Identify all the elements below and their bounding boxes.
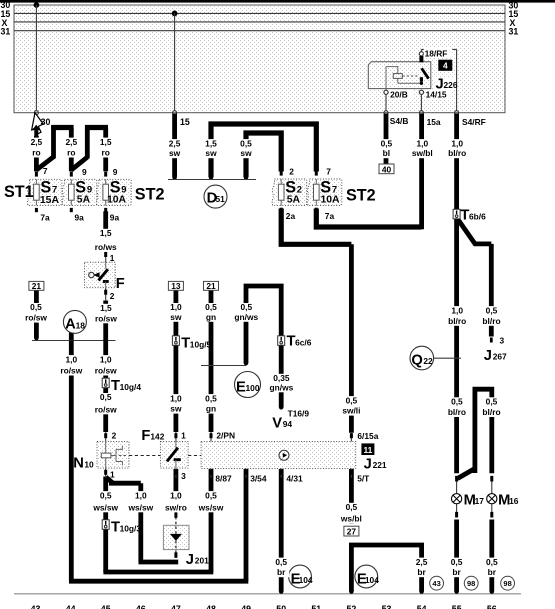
wire ground loop col52-col54 (br) [351, 545, 421, 591]
wire label 0,5 ws/sw (col48) [196, 490, 226, 512]
svg-text:18: 18 [76, 320, 86, 330]
bulb M17 [452, 476, 485, 518]
svg-text:0,5: 0,5 [100, 392, 112, 402]
svg-text:br: br [488, 567, 497, 577]
wire branch diagonal fuse2 to loop [71, 157, 87, 170]
wire M16 down (0,5 br) [489, 520, 494, 592]
svg-text:5A: 5A [77, 195, 91, 206]
left bus labels 30 15 X 31 [1, 0, 11, 36]
label F142 [141, 428, 164, 444]
relay contact node [420, 82, 423, 85]
wire label 0,5 bl/ro mid (col55) [443, 397, 470, 418]
label N10 [73, 456, 94, 472]
svg-text:104: 104 [365, 575, 379, 585]
J221 terminal 8/87 [210, 468, 233, 483]
wiper relay N10 box [97, 441, 129, 468]
svg-text:0,5: 0,5 [100, 490, 112, 500]
svg-text:98: 98 [503, 579, 511, 588]
svg-text:46: 46 [136, 604, 146, 609]
wire fuse S7 out 7a to 15a bar [316, 209, 421, 228]
svg-text:5A: 5A [287, 195, 301, 206]
svg-text:bl/ro: bl/ro [448, 407, 466, 417]
svg-text:14/15: 14/15 [426, 89, 447, 99]
node on bus 15 (col47 tap) [172, 11, 178, 17]
svg-text:A: A [65, 317, 76, 333]
N10 terminal 2 [104, 431, 116, 442]
svg-text:ro/sw: ro/sw [60, 366, 82, 376]
wire loop bar 1 [51, 125, 73, 130]
svg-text:9a: 9a [75, 213, 85, 223]
wire col49 below J221 3/54 [244, 469, 249, 581]
svg-text:T16/9: T16/9 [288, 408, 310, 418]
wire end cap col48 at D51 [209, 175, 214, 180]
svg-text:2,5: 2,5 [31, 137, 43, 147]
label V94 [272, 415, 292, 431]
svg-text:100: 100 [246, 383, 260, 393]
wire into relay switch (thick stub) [419, 56, 423, 62]
wire col52 down to J221 6/15a (0,5 sw/li) [349, 244, 354, 432]
svg-text:55: 55 [452, 604, 462, 609]
relay fixed contact [420, 77, 423, 82]
J267 terminal 3 [490, 336, 505, 346]
svg-text:11: 11 [363, 445, 372, 455]
ground bar C (col44-col49) [69, 579, 248, 584]
drop circle 15a [419, 111, 423, 115]
svg-text:1,0: 1,0 [170, 302, 182, 312]
svg-text:43: 43 [432, 579, 440, 588]
wire branch diagonal fuse1 to loop [36, 157, 53, 170]
wire col47 from ref13 to F142 (1,0 sw) [173, 290, 178, 432]
fuse S2 5A (ST2) [272, 171, 307, 212]
svg-text:104: 104 [299, 575, 313, 585]
switch F terminal 2 [104, 288, 115, 301]
svg-text:E: E [236, 379, 246, 395]
fuse S9 5A (ST1) [62, 172, 97, 213]
svg-text:2: 2 [289, 166, 294, 176]
wire label 0,5 sw/li (col52) [338, 395, 365, 415]
wire label 0,5 bl/ro (col56) [478, 305, 505, 326]
svg-text:56: 56 [487, 604, 497, 609]
diode unit J201 [163, 512, 189, 560]
bus line 31 [14, 30, 505, 32]
wire col44 down (1,0 ro/sw) to ground bar C [69, 341, 74, 582]
svg-text:sw: sw [205, 148, 217, 158]
dashed link F142 to J221 [188, 455, 201, 457]
J221 terminal 4/31 [280, 468, 303, 483]
svg-text:54: 54 [417, 604, 427, 609]
ground rail line (bottom) [14, 593, 521, 595]
wire end cap col50 at V94 [279, 405, 284, 410]
F142 terminal 1 [174, 431, 186, 442]
wire label 1,0 ro/sw (col44) [57, 354, 85, 375]
boxed ref 27 (col52) [344, 526, 359, 537]
drop circle S4/B [384, 111, 388, 115]
wire end cap col43 at junction [34, 336, 39, 341]
svg-text:2/PN: 2/PN [216, 431, 235, 441]
wire end cap col50 at rail [279, 589, 284, 594]
wire 20/B to S4/B drop [385, 94, 387, 110]
svg-text:201: 201 [195, 556, 209, 566]
terminal circle 14/15 [419, 90, 423, 94]
svg-text:F: F [141, 428, 150, 444]
svg-text:ro/sw: ro/sw [25, 313, 47, 323]
svg-text:0,5: 0,5 [275, 557, 287, 567]
svg-text:10g/3: 10g/3 [120, 523, 142, 533]
wire M17 down (0,5 br) [454, 520, 459, 592]
drop circle col47 (15) [173, 111, 177, 115]
J221 terminal 5/T [350, 468, 370, 483]
relay coil [393, 74, 402, 79]
column numbers 43-56 [31, 604, 497, 609]
svg-text:gn/ws: gn/ws [270, 382, 294, 392]
svg-text:br: br [452, 567, 461, 577]
svg-text:2,5: 2,5 [65, 137, 77, 147]
svg-text:2: 2 [110, 291, 115, 301]
svg-text:F: F [116, 276, 125, 292]
svg-text:0,5: 0,5 [205, 490, 217, 500]
bulb M16 [487, 476, 519, 518]
svg-text:1,5: 1,5 [205, 138, 217, 148]
wire bar to fuse S7 term 7 (1,5 sw) [211, 124, 316, 177]
wire loop riser 1 [51, 125, 56, 158]
svg-text:ro/ws: ro/ws [95, 242, 117, 252]
svg-text:43: 43 [31, 604, 41, 609]
svg-text:gn/ws: gn/ws [234, 312, 258, 322]
svg-text:6/15a: 6/15a [357, 431, 378, 441]
wire branch T6b/6 to col56 (J267 feed) [457, 218, 492, 244]
switch F142 box [160, 441, 188, 468]
wire col43 from ref21 (0,5 ro/sw) [34, 290, 39, 338]
bus-bar box (dotted) [14, 5, 505, 113]
wire loop riser 2 [85, 125, 90, 158]
junction line A18 net [32, 340, 116, 342]
wire end cap col52 at rail [349, 589, 354, 594]
junction line Q22 tap [434, 357, 461, 359]
svg-text:52: 52 [347, 604, 357, 609]
svg-text:44: 44 [66, 604, 76, 609]
svg-text:2: 2 [112, 431, 117, 441]
wire label 1,0 ro/sw (col45) [92, 354, 120, 375]
wire label 1,0 sw/ro (col47) [161, 490, 191, 512]
J221 terminal 3/54 [245, 468, 267, 483]
connector T6c/6 [278, 334, 312, 350]
svg-text:br: br [277, 567, 286, 577]
svg-text:3: 3 [181, 471, 186, 481]
node on bus 30 (col43 tap) [34, 2, 40, 8]
wire end cap col55 at rail [454, 589, 459, 594]
fuse terminal labels ST2 [286, 166, 335, 221]
label J221 [364, 456, 387, 472]
svg-text:7: 7 [52, 184, 57, 195]
svg-text:9: 9 [113, 167, 118, 177]
relay coil circuit (thin) [386, 67, 421, 91]
svg-text:2,5: 2,5 [416, 557, 428, 567]
svg-text:sw/ro: sw/ro [165, 502, 187, 512]
wire label 2,5 ro (col43) [25, 137, 47, 158]
svg-text:0,5: 0,5 [486, 397, 498, 407]
wire label 0,5 bl (S4/B) [375, 138, 397, 158]
svg-text:45: 45 [101, 604, 111, 609]
svg-text:31: 31 [1, 27, 11, 37]
svg-text:gn: gn [206, 312, 216, 322]
switch F terminal 1 [104, 251, 115, 263]
circled ref 98 (col56) [501, 576, 515, 590]
control unit J221 box [201, 441, 356, 468]
wire label 1,0 sw/bl (15a) [408, 138, 436, 158]
wire col47 inside box (thin drop from bus 15) [174, 13, 176, 110]
svg-text:20/B: 20/B [390, 89, 408, 99]
svg-text:1,0: 1,0 [451, 305, 463, 315]
svg-text:10g/5: 10g/5 [190, 339, 212, 349]
svg-text:5/T: 5/T [357, 474, 370, 484]
svg-text:1,0: 1,0 [170, 490, 182, 500]
bus line 15 [14, 12, 505, 14]
wire col47 below F142 (1,0 sw/ro) to J201 [173, 469, 178, 512]
wire label 0,5 gn low (col48) [199, 393, 223, 413]
svg-text:0,5: 0,5 [30, 302, 42, 312]
connector E100 [235, 372, 261, 398]
wire label 1,0 bl/ro (S4/RF) [444, 138, 471, 158]
connector T10g/5 [172, 336, 211, 352]
wire col48 from ref21 to J221 2/PN (0,5 gn) [209, 290, 214, 432]
wire end cap col56 at rail [490, 589, 495, 594]
wire label 0,5 gn/ws (col49) [231, 302, 261, 322]
svg-text:1,0: 1,0 [451, 138, 463, 148]
wire label 2,5 br (col54) [414, 557, 430, 577]
wire 15 feed col47 (2,5 sw) to D51 [172, 114, 177, 177]
svg-text:94: 94 [283, 419, 293, 429]
relay switch arm [422, 68, 429, 78]
svg-text:15a: 15a [427, 117, 441, 127]
svg-text:J: J [186, 552, 194, 568]
svg-text:10: 10 [84, 459, 94, 469]
wire end cap col47 at D51 [172, 175, 177, 180]
svg-text:ST2: ST2 [346, 187, 376, 205]
drop circle S4/RF [455, 111, 459, 115]
svg-text:7: 7 [43, 166, 48, 176]
svg-text:1,0: 1,0 [135, 490, 147, 500]
label 14/15 [425, 89, 451, 99]
svg-text:bl/ro: bl/ro [448, 148, 466, 158]
svg-text:7: 7 [326, 166, 331, 176]
wire label 0,5 br (col56) [484, 557, 500, 577]
wire branch N10 out to col46 (1,0 ws/sw) [106, 477, 141, 562]
svg-text:S4/B: S4/B [390, 116, 409, 126]
svg-text:15: 15 [180, 117, 190, 127]
svg-text:1,5: 1,5 [100, 228, 112, 238]
svg-text:142: 142 [150, 432, 164, 442]
relay coil-to-switch dashed link [402, 75, 419, 77]
connector Q22 [410, 346, 434, 370]
junction line E100 [201, 365, 247, 367]
terminal circle 18/RF [419, 52, 423, 56]
ground bar B (col45-col48) [103, 570, 213, 575]
svg-text:49: 49 [241, 604, 251, 609]
label J226 [435, 76, 458, 92]
svg-text:98: 98 [467, 579, 475, 588]
wire label 1,5 ro (col45) [95, 137, 117, 158]
svg-text:bl: bl [383, 148, 390, 158]
fuse terminal labels ST1 [40, 166, 119, 223]
wire 18/RF link to S4/RF drop [421, 49, 456, 110]
svg-text:10A: 10A [321, 195, 341, 206]
svg-text:30: 30 [41, 117, 51, 127]
svg-text:6b/6: 6b/6 [469, 211, 486, 221]
svg-text:sw: sw [170, 404, 182, 414]
connector T10g/3 [102, 520, 141, 536]
relay position box 4 [438, 60, 452, 71]
svg-text:V: V [272, 415, 282, 431]
fuse S7 15A (ST1) [27, 172, 62, 213]
wire end cap col49 at D51 [244, 175, 249, 180]
wire diagonal tie into M17 [458, 469, 475, 479]
svg-text:N: N [73, 456, 84, 472]
wire bar to fuse S2 term 2 (0,5 sw) [246, 133, 281, 177]
relay J226 outline [368, 62, 431, 89]
svg-text:53: 53 [382, 604, 392, 609]
svg-text:ro: ro [32, 148, 40, 158]
wire col45 below N10 (0,5 ws/sw) to bar B [103, 477, 108, 573]
wire label 0,5 ws/sw (col45) [91, 490, 121, 512]
svg-text:40: 40 [382, 164, 392, 174]
wire 14/15 to 15a drop [420, 94, 422, 110]
wire label 0,5 sw (col49) [234, 138, 258, 158]
wire S4/RF col55 (1,0 bl/ro) [454, 114, 459, 474]
wire F to N10 (ro/sw) [103, 301, 108, 433]
connector D51 [204, 185, 227, 208]
wire col50 below J221 4/31 (0,5 br) [279, 469, 284, 591]
svg-text:10A: 10A [107, 195, 127, 206]
svg-text:7a: 7a [40, 213, 50, 223]
svg-text:0,5: 0,5 [205, 302, 217, 312]
svg-text:br: br [417, 567, 426, 577]
wire label 1,5 ro/ws (col45) [91, 228, 120, 252]
wire label 0,5 ro/sw low (col45) [92, 392, 120, 414]
svg-text:51: 51 [216, 194, 226, 204]
svg-text:0,5: 0,5 [346, 502, 358, 512]
wire label 0,5 ws/bl (col52) [337, 502, 365, 523]
svg-text:ro/sw: ro/sw [95, 404, 117, 414]
svg-text:31: 31 [509, 27, 519, 37]
svg-text:2a: 2a [286, 211, 296, 221]
svg-text:47: 47 [171, 604, 181, 609]
svg-text:0,5: 0,5 [346, 395, 358, 405]
svg-text:1,5: 1,5 [100, 137, 112, 147]
svg-text:bl/ro: bl/ro [482, 316, 500, 326]
wire col52 below J221 5/T (0,5 ws/bl) [349, 469, 354, 524]
bus line X [14, 21, 505, 23]
wire col56 down to J267 [489, 244, 494, 337]
svg-text:21: 21 [206, 281, 216, 291]
wire col43 inside box (thin drop from bus 30) [35, 5, 37, 111]
wire label 1,0 bl/ro (col55) [444, 305, 471, 326]
svg-text:3: 3 [500, 336, 505, 346]
terminal circle 20/B [384, 90, 388, 94]
N10 terminal 1 [104, 468, 115, 479]
wire S4/B (0,5 bl) [384, 114, 389, 164]
svg-text:bl/ro: bl/ro [448, 316, 466, 326]
svg-text:1,0: 1,0 [170, 393, 182, 403]
wire label 2,5 sw (col47) [163, 138, 187, 158]
wire label 0,5 ro/sw (col43) [22, 302, 50, 322]
svg-text:bl/ro: bl/ro [482, 407, 500, 417]
wire label 0,5 bl/ro leg (col56) [478, 397, 505, 418]
svg-text:ws/bl: ws/bl [340, 513, 362, 523]
svg-text:J: J [364, 456, 372, 472]
wire end cap col54 at rail [419, 589, 424, 594]
svg-text:4: 4 [443, 61, 448, 71]
boxed ref 21 (col48) [204, 281, 219, 291]
wire 30 feed col43 (2,5 ro) with up-arrow [32, 125, 40, 172]
svg-text:0,5: 0,5 [451, 397, 463, 407]
label J201 [186, 552, 209, 568]
wire col45 feed (1,5 ro) [103, 128, 108, 172]
brake light switch F box [85, 262, 116, 288]
svg-text:Q: Q [411, 352, 422, 368]
svg-text:0,5: 0,5 [240, 302, 252, 312]
svg-text:ST2: ST2 [135, 186, 165, 204]
dashed link N10 to F142 [129, 455, 160, 457]
label 18/RF [424, 48, 453, 58]
boxed ref 13 (col47) [168, 281, 183, 291]
wire label 0,5 br (col55) [449, 557, 465, 577]
connector T6b/6 [453, 208, 486, 224]
svg-text:13: 13 [171, 281, 181, 291]
svg-text:9a: 9a [110, 213, 120, 223]
svg-text:6c/6: 6c/6 [295, 337, 312, 347]
svg-text:gn: gn [206, 404, 216, 414]
svg-text:50: 50 [276, 604, 286, 609]
svg-text:0,5: 0,5 [486, 557, 498, 567]
J221 terminal 6/15a [350, 431, 379, 442]
fuse S9 10A (ST1) [97, 172, 132, 213]
svg-text:3/54: 3/54 [250, 474, 267, 484]
J221 terminal 2/PN [210, 431, 236, 442]
svg-text:8/87: 8/87 [215, 474, 232, 484]
label 20/B [389, 89, 413, 99]
svg-text:1: 1 [110, 253, 115, 263]
svg-text:sw/li: sw/li [342, 406, 360, 416]
svg-text:9: 9 [82, 167, 87, 177]
wire fuse3 out 9a (1,5 ro/ws) to switch F [103, 211, 108, 251]
circled ref 43 [430, 576, 444, 590]
svg-text:16: 16 [509, 496, 519, 506]
wire end cap col49 at E100 [244, 361, 249, 366]
svg-text:0,5: 0,5 [486, 305, 498, 315]
connector A18 [63, 310, 86, 333]
ground bar A (col46-col47) [139, 560, 179, 565]
svg-text:1,0: 1,0 [100, 354, 112, 364]
wire col44 feed (2,5 ro) [69, 128, 74, 172]
wire label 1,5 sw (col48) [199, 138, 223, 158]
svg-text:0,5: 0,5 [451, 557, 463, 567]
boxed ref 40 (S4/B) [379, 164, 394, 174]
wire label 1,0 sw (col47) [164, 302, 188, 322]
svg-text:18/RF: 18/RF [425, 48, 448, 58]
top page border bar [0, 0, 555, 3]
circled ref 98 (col55) [464, 576, 478, 590]
connector E104 (col50) [289, 565, 313, 588]
wire label 1,5 ro/sw (col45) [92, 303, 120, 323]
wire A18 stub [69, 333, 74, 341]
wire label 0,5 br (col50) [273, 557, 289, 577]
svg-text:22: 22 [423, 356, 433, 366]
svg-text:J: J [484, 348, 492, 364]
wire 15a col54 (1,0 sw/bl) [419, 114, 424, 230]
wire lamp tie bar M17-M16 [475, 389, 492, 473]
svg-text:S4/RF: S4/RF [462, 117, 486, 127]
svg-text:ro: ro [67, 148, 75, 158]
